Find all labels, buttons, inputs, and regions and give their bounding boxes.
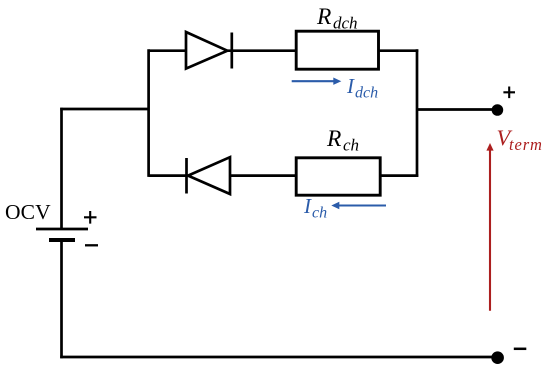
battery OCV: short negative plate [49,238,75,242]
diode D2 triangle [188,157,230,194]
svg-text:ch: ch [312,204,327,221]
svg-text:I: I [346,74,355,98]
svg-text:R: R [316,4,331,30]
wire: left vertical from battery bottom plate down to bottom wire [60,240,63,358]
wire: top branch right segment [379,49,419,52]
diode D1 (discharge, pointing right): triangle [186,32,227,69]
wire: top branch middle segment [227,49,296,52]
resistor R_dch box [296,31,378,69]
svg-text:OCV: OCV [5,200,51,224]
svg-text:dch: dch [355,85,378,102]
battery OCV: long positive plate [36,228,88,231]
diode D1 cathode bar [230,33,233,69]
wire: bottom branch right segment [380,174,418,177]
current arrow I_dch (blue, pointing right) [292,80,335,82]
diode D2 (charge, pointing left): cathode bar [185,158,188,194]
wire: top branch left segment [149,49,186,52]
wire: parallel combo right vertical [416,49,419,177]
voltage arrow V_term (red, pointing up) [489,150,491,311]
wire: middle horizontal left (battery top to parallel combo left node) [60,108,148,111]
svg-text:ch: ch [343,135,359,154]
wire: bottom branch left segment [149,174,187,177]
svg-text:term: term [509,135,543,154]
svg-text:R: R [326,126,341,152]
battery plus sign [84,211,97,224]
resistor R_ch box [296,158,380,195]
wire: middle horizontal right (combo to positive terminal node) [417,108,497,111]
battery minus sign [85,244,98,246]
terminal minus sign [514,348,527,351]
node: negative terminal [491,351,504,364]
node: parallel combo left vertical wire [147,49,150,177]
current arrow I_ch (blue, pointing left) [338,204,386,206]
terminal plus sign [503,87,515,99]
svg-text:I: I [303,194,312,218]
node: positive terminal [492,104,504,116]
wire: bottom horizontal to negative terminal node [60,356,497,359]
wire: left vertical from middle wire down to battery top plate [60,108,63,228]
svg-text:dch: dch [333,13,358,32]
wire: bottom branch middle segment [230,174,296,177]
